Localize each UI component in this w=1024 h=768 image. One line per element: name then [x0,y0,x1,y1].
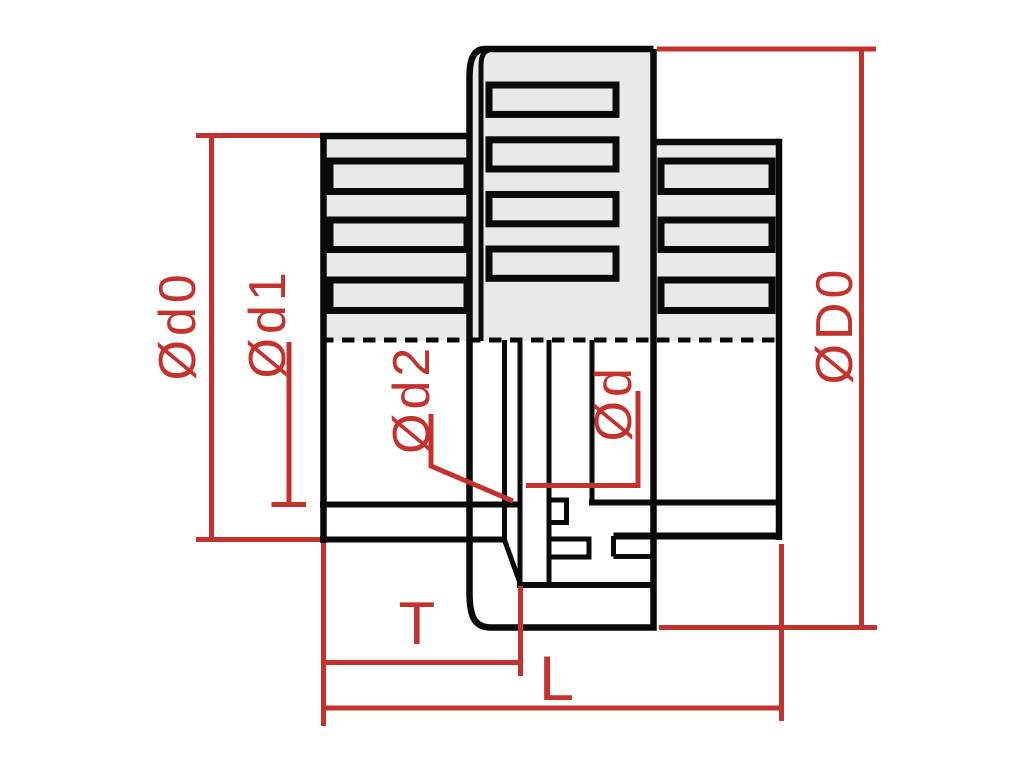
left body knurl slot 1 [330,161,467,192]
left body top edge [320,133,471,140]
nut knurl slot 2 [489,140,616,169]
dim ØD0 bottom extension [659,625,877,630]
svg-text:L: L [539,644,574,714]
svg-text:Ød1: Ød1 [239,268,297,378]
centerline (dotted) [321,338,783,343]
right socket groove U2 [614,536,656,557]
dim Ød1 line [287,342,292,505]
svg-text:ØD0: ØD0 [806,266,864,385]
union nut outline (rounded top-left and bottom-left corners) [470,49,654,628]
left part bottom edge [320,537,506,543]
right part bore line [589,500,779,506]
dim T line [321,660,521,665]
left body knurl slot 2 [330,220,467,250]
union nut gray fill (top half, rounded top-left) [470,49,653,341]
dim ØD0 line [859,49,864,628]
right body right edge [776,139,783,540]
dim Ød0 top tick [196,133,320,138]
left body left edge [320,134,327,543]
nut knurl slot 1 [489,85,616,114]
red dimension graphics [196,49,877,726]
right body gray fill (top half) [651,139,779,341]
dim Ød leader [526,391,638,486]
black outlines [320,49,783,628]
dim T right extension [518,586,523,676]
dim Ød2 leader [431,414,513,501]
nut internal groove U1 [549,539,589,557]
left body knurl slot 3 [330,280,467,311]
dim Ød0 line [209,134,214,541]
sleeve outer wall [502,340,507,540]
sleeve inner wall [518,340,523,585]
left body gray fill (top half) [320,49,779,341]
svg-text:Ød2: Ød2 [383,344,441,454]
dimension labels [149,266,864,714]
svg-text:Ød0: Ød0 [149,270,207,380]
nut knurl slot 3 [489,195,616,224]
dim L line [321,706,783,711]
nut internal step box [549,500,567,523]
dim T/L left extension [321,543,326,726]
right body knurl slot 3 [661,280,772,311]
nut internal wall 2 [590,340,595,505]
right body top edge [651,139,779,146]
sleeve chamfer [505,540,521,583]
nut cavity bottom [517,582,654,588]
svg-text:T: T [399,590,436,657]
svg-text:Ød: Ød [585,364,643,441]
union nut inner left line [481,50,489,341]
right body knurl slot 2 [661,220,772,250]
dim Ød1 tick [272,502,307,507]
dim L right extension [779,544,784,721]
right body knurl slot 1 [661,161,772,192]
right body bottom edge + socket groove top [614,533,780,540]
dim ØD0 top extension [657,47,876,52]
dim Ød0 bottom tick [196,537,320,542]
nut internal wall [547,340,552,585]
nut knurl slot 4 [489,249,616,278]
left part bore line [320,502,520,508]
